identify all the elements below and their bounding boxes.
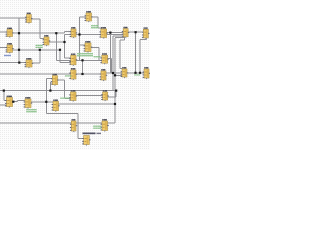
wire w-h37 <box>115 37 124 39</box>
wire w-U7-out <box>76 59 101 61</box>
wire w-v46-dn <box>45 102 47 114</box>
green annotation text T2 <box>77 53 93 56</box>
green annotation text T5 <box>65 75 72 76</box>
wire w-U14-out-v <box>64 80 66 99</box>
wire w-v56-U7 <box>56 59 70 61</box>
transistor-block U12 <box>142 27 150 39</box>
wire w-v56 <box>55 33 57 60</box>
wire w-U9-stub <box>100 28 102 30</box>
wire w-U2-out-h <box>92 16 99 18</box>
transistor-block U8 <box>84 41 93 53</box>
wire w-U19-in2 <box>0 104 6 106</box>
wire w-v115-dn <box>114 104 116 123</box>
wire w-U13-out-h <box>32 62 40 64</box>
transistor-block U9 <box>99 27 107 38</box>
wire w-U20-out <box>31 101 53 103</box>
wire w-U23-out-v <box>115 91 117 97</box>
transistor-block U26 <box>101 119 109 132</box>
wire w-v120-U17 <box>120 68 122 70</box>
wire w-U19-out-h <box>13 101 18 103</box>
wire w-U1-out-h <box>31 18 40 20</box>
wire w-v64-U7 <box>65 57 71 59</box>
transistor-block U22 <box>69 90 77 102</box>
transistor-block U25 <box>82 136 90 146</box>
wire w-v135 <box>135 32 137 73</box>
junction node J5 <box>55 32 57 34</box>
junction node J20 <box>12 101 14 103</box>
transistor-block U24 <box>70 119 77 132</box>
wire w-y123-a <box>0 122 71 124</box>
wire w-v113 <box>112 36 114 91</box>
junction node J19 <box>3 90 5 92</box>
wire w-U12-out-v <box>139 40 141 73</box>
junction node J8 <box>78 33 80 35</box>
wire w-v115 <box>114 38 116 104</box>
wire w-U1-out-v <box>39 19 41 39</box>
wire w-U17-U18 <box>127 72 144 74</box>
transistor-block U13 <box>25 58 34 68</box>
wire w-v78 <box>77 114 79 139</box>
wire w-U1-U5 <box>40 38 45 40</box>
wire w-in-U13 <box>0 62 26 64</box>
wire w-U23-out-h <box>108 96 117 98</box>
junction node J1 <box>18 32 20 34</box>
transistor-block U14 <box>51 74 59 86</box>
green annotation text T6 <box>60 98 69 99</box>
junction node J11 <box>109 32 111 34</box>
wire w-h40 <box>120 39 125 41</box>
wire w-U19-in1 <box>4 100 7 102</box>
green annotation text T1 <box>36 45 43 48</box>
wire w-in-U1 <box>0 17 27 19</box>
wire w-bus-v19 <box>18 18 20 63</box>
wire w-v60-U7 <box>60 62 71 64</box>
wire w-y123-b <box>76 122 102 124</box>
wire w-U8-in <box>80 44 86 46</box>
junction node J17 <box>115 90 117 92</box>
wire w-h36 <box>113 35 123 37</box>
wire w-U8-out-v <box>98 48 100 61</box>
wire w-U10-out-h <box>108 58 112 60</box>
wire w-U21-out <box>59 103 116 105</box>
wire w-v82 <box>82 60 84 74</box>
wire w-U19-out-v <box>17 100 19 101</box>
wire w-jog-v <box>64 31 66 33</box>
wire w-U2-U9 <box>98 27 101 29</box>
junction node J12 <box>112 72 114 74</box>
wire w-U12-out-stub <box>145 38 147 40</box>
transistor-block U4 <box>6 43 14 53</box>
label AB information flag <box>83 133 102 135</box>
junction node J13 <box>114 74 116 76</box>
wire w-U8-out-h <box>91 47 99 49</box>
wire w-v60 <box>59 50 61 63</box>
blue net label <box>4 55 11 56</box>
wire w-U2-in-h <box>80 16 87 18</box>
wire w-y113 <box>46 113 78 115</box>
transistor-block U18 <box>143 67 151 79</box>
junction node J14 <box>135 31 137 33</box>
wire w-h75 <box>115 74 122 76</box>
junction node J21 <box>45 101 47 103</box>
transistor-block U19 <box>5 96 14 108</box>
transistor-block U11 <box>122 27 130 38</box>
wire w-v120 <box>119 40 121 69</box>
transistor-block U21 <box>52 100 60 112</box>
transistor-block U7 <box>69 54 77 66</box>
wire w-U16-U17 <box>106 72 122 74</box>
junction node J3 <box>18 62 20 64</box>
junction node J6 <box>59 49 61 51</box>
wire w-U12-out-h <box>140 39 146 41</box>
wire w-U19-U20 <box>18 99 26 101</box>
transistor-block U23 <box>101 90 109 101</box>
wire w-v3.8 <box>3 91 5 101</box>
wire w-v64 <box>64 34 66 58</box>
junction node J22 <box>114 103 116 105</box>
wire w-v50 <box>49 82 51 91</box>
transistor-block U20 <box>24 97 33 109</box>
junction node J18 <box>49 90 51 92</box>
junction node J10 <box>81 73 83 75</box>
transistor-block U10 <box>100 53 108 64</box>
junction node J2 <box>18 49 20 51</box>
junction node J15 <box>134 72 136 74</box>
junction node J7 <box>63 41 65 43</box>
wire w-y74-b <box>76 73 101 75</box>
wire w-U2-out-v <box>97 17 99 28</box>
wire w-U14-in1 <box>46 77 52 79</box>
wire w-U22-in <box>65 98 71 100</box>
wire w-net2-v <box>79 17 81 60</box>
wire w-U5-out <box>49 41 65 43</box>
green annotation text T8 <box>26 109 37 112</box>
transistor-block U1 <box>25 13 32 24</box>
wire w-U25-in <box>78 138 84 140</box>
transistor-block U6 <box>70 27 78 38</box>
junction node J9 <box>81 59 83 61</box>
transistor-block U3 <box>6 28 14 38</box>
wire w-U10-out-v <box>111 59 113 73</box>
wire w-U13-out-v <box>39 50 41 63</box>
wire w-in-U3 <box>0 31 7 33</box>
transistor-block U16 <box>100 69 108 81</box>
wire w-y74-a <box>0 73 71 75</box>
wire w-stub-U11 <box>124 37 126 40</box>
wire w-in-U4 <box>0 47 7 49</box>
wire w-U4-out <box>13 49 61 51</box>
wire w-U9-out <box>107 32 124 34</box>
green annotation text T4 <box>94 56 101 57</box>
transistor-block U2 <box>85 11 93 22</box>
wire w-U14-in2 <box>50 81 52 83</box>
junction node J16 <box>139 72 141 74</box>
wire w-U3-out <box>13 32 65 34</box>
transistor-block U5 <box>43 35 51 46</box>
wire w-U6-out <box>76 33 123 35</box>
wire w-v110 <box>109 33 111 73</box>
wire w-U26-right <box>108 122 116 124</box>
wire w-U14-out-h <box>58 79 65 81</box>
transistor-block U17 <box>121 67 129 78</box>
wire w-U22-U23 <box>76 95 103 97</box>
green annotation text T9 <box>93 126 101 129</box>
wire w-y90 <box>0 90 116 92</box>
green annotation text T7 <box>134 74 140 75</box>
wire w-U11-U12 <box>128 31 143 33</box>
wire w-v46-up <box>45 78 47 102</box>
green annotation text T3 <box>91 25 99 28</box>
junction node J4 <box>39 49 41 51</box>
wire w-jog-U6 <box>65 30 72 32</box>
transistor-block U15 <box>69 68 77 80</box>
wire w-v64-U6 <box>65 33 72 35</box>
